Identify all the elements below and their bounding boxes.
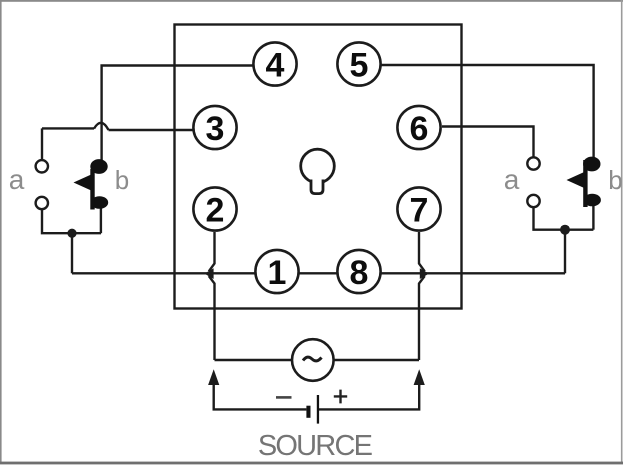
svg-text:b: b <box>115 165 129 195</box>
svg-text:1: 1 <box>268 254 287 292</box>
svg-text:7: 7 <box>410 191 429 229</box>
svg-text:a: a <box>504 164 520 195</box>
svg-text:4: 4 <box>266 46 285 84</box>
svg-text:SOURCE: SOURCE <box>258 430 373 462</box>
svg-text:a: a <box>9 164 25 195</box>
svg-text:2: 2 <box>206 191 225 229</box>
svg-text:b: b <box>608 165 622 195</box>
svg-text:3: 3 <box>206 110 225 148</box>
svg-text:6: 6 <box>410 110 429 148</box>
svg-text:8: 8 <box>350 254 369 292</box>
svg-text:5: 5 <box>350 46 369 84</box>
